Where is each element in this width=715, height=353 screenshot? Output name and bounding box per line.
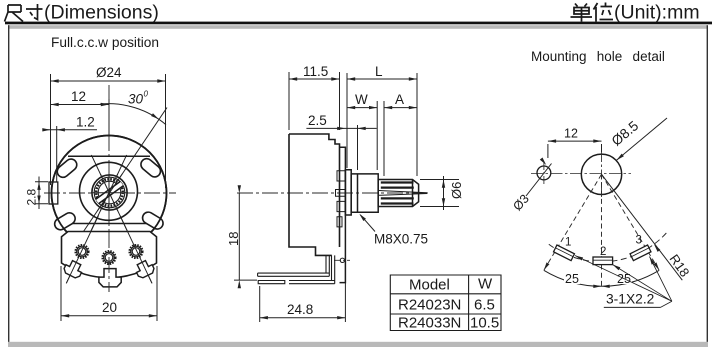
R18 radial line [602, 174, 683, 280]
dimension A [384, 101, 417, 176]
fan dashed line right [602, 174, 660, 270]
svg-text:R18: R18 [667, 251, 693, 279]
slot top-right [139, 156, 163, 179]
svg-text:12: 12 [564, 127, 578, 141]
front plate edge [340, 147, 346, 282]
pin 1 bar [258, 255, 330, 276]
dimension arc 25 25 [544, 270, 659, 286]
dimension 2.5 [306, 125, 376, 170]
key slot 2 [593, 257, 613, 265]
locating hole circle D3 [537, 166, 551, 180]
plate hole centerline [334, 259, 350, 261]
shaft knurl teeth ring [96, 179, 123, 206]
key slot 1 [554, 245, 575, 261]
slot bottom-right [140, 210, 165, 231]
svg-text:6.5: 6.5 [474, 297, 495, 314]
mounting centerline horizontal [531, 173, 631, 175]
shaft second ring [94, 177, 125, 208]
dimension 24.8 [260, 283, 346, 322]
dimension 12 mounting [548, 141, 602, 158]
svg-text:Ø6: Ø6 [449, 182, 464, 199]
svg-text:Ø3: Ø3 [510, 192, 532, 214]
side body outline [289, 134, 340, 255]
svg-text:0: 0 [144, 90, 149, 99]
dimension 30 degrees arc [100, 104, 166, 125]
svg-text:10.5: 10.5 [470, 315, 499, 332]
frame right border [707, 25, 708, 343]
front vertical centerline lower part [108, 232, 110, 292]
shaft outer ring [92, 175, 127, 210]
dimension L [347, 73, 417, 176]
svg-text:M8X0.75: M8X0.75 [374, 232, 428, 247]
svg-text:3: 3 [636, 235, 642, 247]
frame top grey band [8, 25, 707, 29]
dimension 18 [234, 193, 257, 280]
rotor middle circle [80, 162, 138, 220]
dimension D6 [420, 176, 459, 210]
fan dashed line left [544, 174, 602, 270]
svg-text:Mounting hole detail: Mounting hole detail [531, 49, 665, 64]
front view vertical centerline [108, 85, 110, 292]
knurled shaft [378, 180, 418, 207]
solder lug left [63, 259, 85, 280]
header separator line [5, 22, 712, 25]
dimension D24 [51, 74, 166, 188]
label 3-1X2.2 leaders [575, 256, 672, 308]
table grid [390, 275, 501, 331]
shaft inner circle [98, 181, 121, 204]
dimension 11.5 [289, 72, 340, 130]
svg-text:R24023N: R24023N [398, 297, 461, 314]
svg-text:12: 12 [71, 89, 86, 104]
svg-text:Ø8.5: Ø8.5 [609, 118, 642, 149]
body outer circle restroke [52, 136, 167, 251]
label M8X0.75 with leader [360, 215, 375, 232]
svg-text:A: A [395, 92, 404, 107]
30-degree angled line [67, 108, 167, 257]
solder lug right [134, 259, 156, 280]
svg-text:2.8: 2.8 [25, 188, 39, 205]
cover crimp tabs on plate [336, 171, 346, 227]
header title CJK 寸 [26, 4, 43, 20]
dimension W [347, 101, 377, 170]
solder lug center [99, 269, 121, 287]
svg-text:W: W [355, 92, 368, 107]
svg-text:L: L [375, 64, 383, 79]
svg-text:24.8: 24.8 [287, 302, 313, 317]
R18 dashed arc [549, 231, 669, 262]
svg-text:R24033N: R24033N [398, 315, 461, 332]
centerline overlays across shaft [91, 174, 128, 211]
svg-text:11.5: 11.5 [303, 64, 328, 79]
dimension 1.2 [44, 126, 97, 182]
mounting hole vertical centerline [601, 152, 603, 198]
shaft knurl lines [381, 183, 414, 204]
label 3-1X2.2 underline [604, 306, 661, 308]
front view horizontal centerline [44, 192, 176, 194]
terminal 1 centerline [66, 155, 126, 283]
header title CJK 尺 [5, 5, 24, 22]
terminal 2 eyelet [101, 250, 116, 265]
locating hole vertical centerline [543, 162, 545, 184]
shaft slot band [96, 181, 124, 203]
header unit CJK 位 [594, 3, 614, 22]
bracket outline [62, 232, 157, 278]
mounting hole circle D8.5 [581, 154, 621, 194]
bushing collar [345, 170, 351, 215]
svg-text:1: 1 [565, 237, 571, 249]
svg-text:18: 18 [226, 232, 241, 246]
text 25 left [564, 271, 580, 286]
terminal 3 centerline [91, 155, 152, 283]
dimension 20 [61, 266, 157, 321]
svg-text:25: 25 [565, 272, 579, 286]
svg-text:1.2: 1.2 [76, 115, 95, 130]
body outer circle with flat top [52, 136, 167, 251]
svg-text:2.5: 2.5 [308, 113, 327, 128]
pin 2 bar [289, 255, 335, 283]
cover crimp chord upper [68, 155, 150, 157]
svg-text:Full.c.c.w position: Full.c.c.w position [51, 35, 159, 50]
fan dashed line vertical [601, 174, 603, 286]
svg-text:20: 20 [102, 300, 117, 315]
svg-text:2: 2 [600, 246, 606, 258]
svg-text:(Dimensions): (Dimensions) [44, 2, 159, 24]
dimension 2.8 [35, 177, 48, 210]
shaft slot lines [379, 191, 427, 196]
slot top-left [55, 157, 79, 180]
frame bottom grey band [8, 342, 708, 347]
anti-rotation lug [49, 182, 58, 204]
threaded bushing M8 [351, 174, 378, 212]
svg-text:3-1X2.2: 3-1X2.2 [606, 292, 654, 307]
key slot 3 [630, 245, 651, 261]
label D8.5 with leader [617, 118, 668, 160]
terminal 1 eyelet [74, 244, 89, 259]
header unit CJK 单 [571, 4, 593, 22]
cover crimp chord lower [70, 223, 150, 225]
dimension 12 [51, 99, 110, 136]
svg-text:Model: Model [409, 277, 450, 294]
terminal 3 centerline lower part [120, 216, 152, 284]
terminal 1 centerline lower part [66, 216, 98, 284]
terminal 3 eyelet [128, 244, 143, 259]
pin 3 tip bar [258, 281, 285, 284]
text 25 right [616, 271, 632, 286]
slot bottom-left [53, 211, 78, 232]
frame left border [8, 25, 9, 343]
svg-text:(Unit):mm: (Unit):mm [614, 2, 700, 24]
plate hole [340, 258, 344, 262]
svg-text:W: W [478, 276, 493, 293]
svg-text:Ø24: Ø24 [96, 65, 122, 80]
svg-text:30: 30 [128, 92, 144, 107]
label D3 with leader [526, 164, 552, 197]
side view horizontal centerline [237, 192, 428, 194]
